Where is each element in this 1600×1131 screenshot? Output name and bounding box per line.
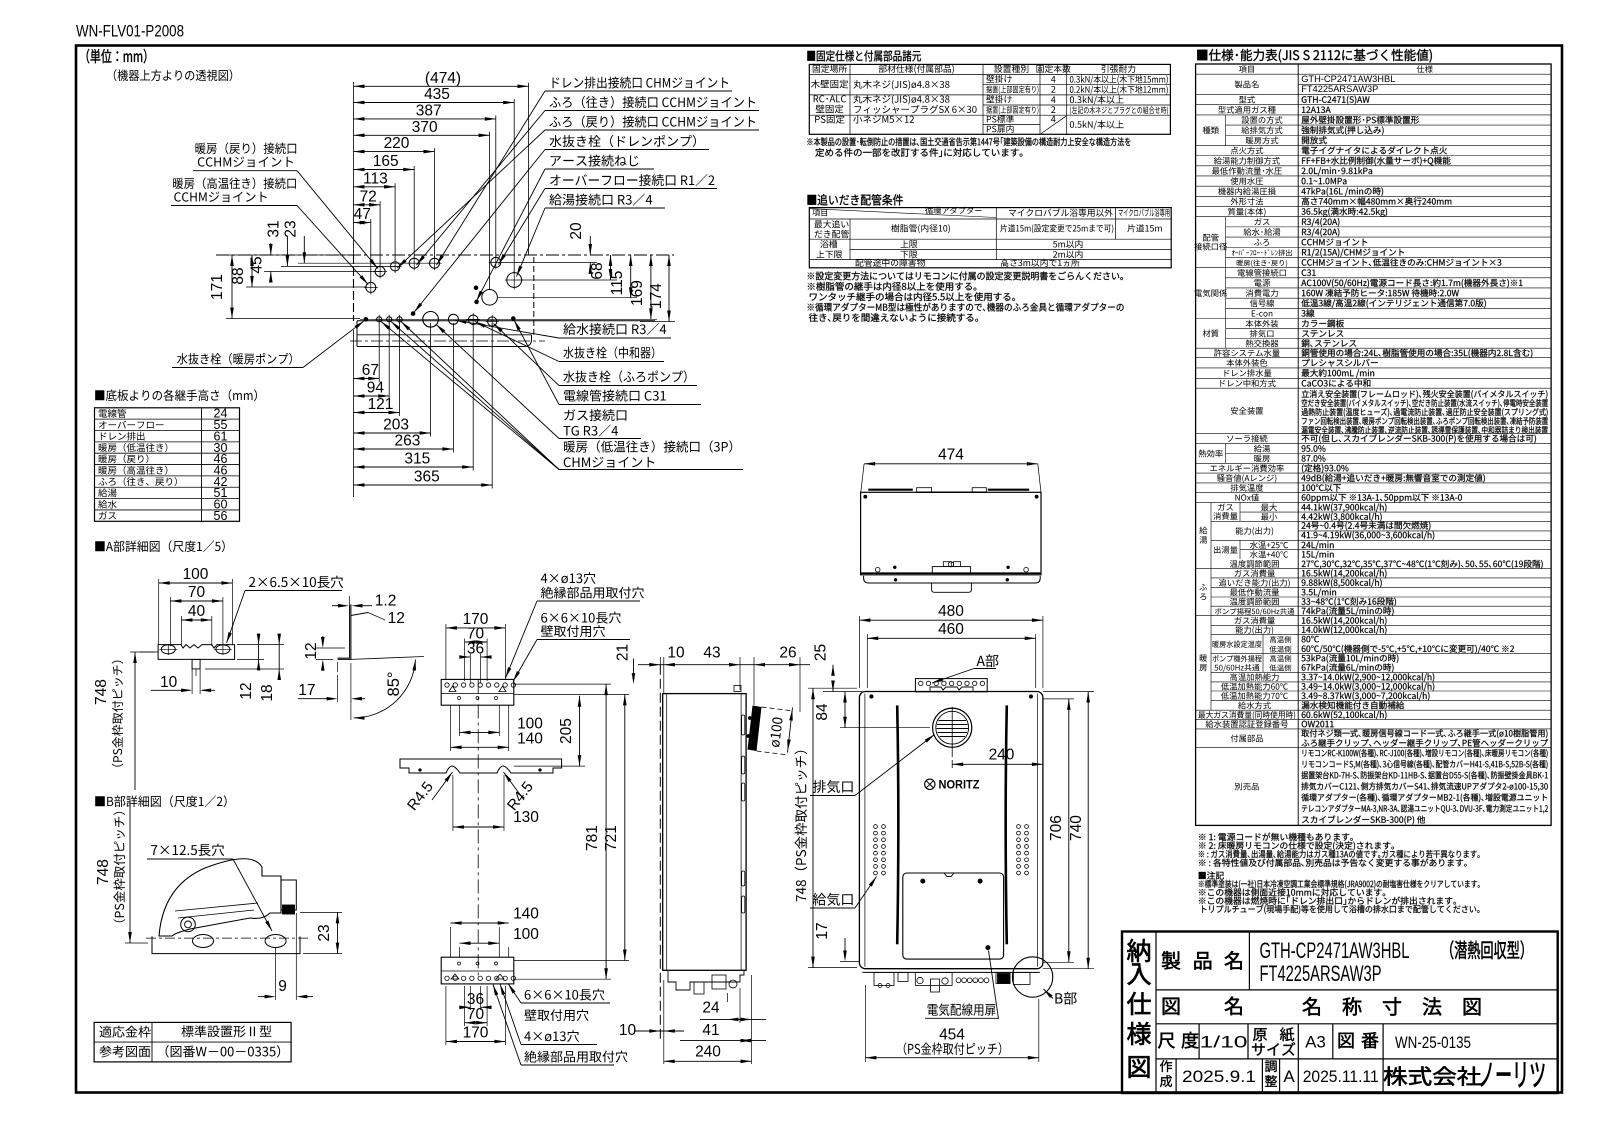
svg-text:68: 68 (589, 262, 606, 279)
svg-text:17: 17 (298, 682, 315, 699)
svg-text:94: 94 (367, 380, 385, 397)
svg-text:781: 781 (584, 825, 601, 851)
svg-text:41: 41 (702, 1022, 719, 1039)
svg-text:10: 10 (667, 645, 685, 662)
svg-text:454: 454 (939, 1026, 965, 1043)
svg-text:GTH-CP2471AW3HBL: GTH-CP2471AW3HBL (1260, 938, 1410, 963)
title block (1122, 932, 1558, 1094)
svg-text:67: 67 (362, 362, 379, 379)
svg-text:205: 205 (558, 718, 575, 744)
svg-text:370: 370 (412, 119, 438, 136)
svg-text:100: 100 (513, 926, 539, 943)
svg-text:21: 21 (615, 644, 632, 661)
svg-text:174: 174 (648, 283, 665, 309)
svg-text:20: 20 (568, 222, 585, 240)
svg-text:WN-FLV01-P2008: WN-FLV01-P2008 (76, 23, 184, 41)
unit front view (859, 692, 1043, 969)
svg-text:NORITZ: NORITZ (939, 780, 980, 792)
svg-text:85°: 85° (385, 672, 403, 697)
svg-text:474: 474 (938, 447, 964, 464)
top perspective view (unit from above) (354, 85, 529, 87)
svg-text:706: 706 (1048, 815, 1065, 841)
svg-text:748: 748 (95, 859, 112, 885)
svg-text:23: 23 (316, 924, 333, 941)
fixing spec table (807, 50, 921, 61)
svg-text:70: 70 (467, 1006, 485, 1023)
B-part detail drawing (95, 795, 226, 807)
svg-text:26: 26 (779, 645, 796, 662)
svg-text:17: 17 (814, 922, 831, 939)
svg-text:130: 130 (513, 809, 539, 826)
svg-text:2025.9.1: 2025.9.1 (1182, 1068, 1256, 1086)
svg-text:A3: A3 (1305, 1033, 1326, 1052)
svg-text:25: 25 (813, 644, 830, 661)
svg-text:40: 40 (188, 603, 206, 620)
connection holes (375, 267, 385, 277)
svg-text:43: 43 (703, 645, 720, 662)
joint height table (95, 389, 257, 401)
svg-text:113: 113 (363, 170, 388, 187)
wall bracket mounting diagram (460, 731, 500, 733)
svg-text:47: 47 (354, 206, 371, 223)
svg-text:169: 169 (629, 280, 646, 306)
svg-text:100: 100 (183, 566, 209, 583)
svg-text:36: 36 (467, 641, 484, 658)
svg-text:170: 170 (463, 1025, 489, 1042)
svg-text:435: 435 (424, 86, 450, 103)
svg-text:140: 140 (513, 905, 539, 922)
svg-text:GTH-CP2471AW3HBL: GTH-CP2471AW3HBL (1301, 74, 1395, 84)
svg-text:88: 88 (230, 267, 247, 284)
svg-text:24: 24 (702, 1000, 720, 1017)
svg-text:220: 220 (384, 135, 410, 152)
svg-text:18: 18 (259, 684, 276, 701)
svg-text:140: 140 (517, 731, 543, 748)
svg-text:460: 460 (938, 621, 964, 638)
svg-text:FT4225ARSAW3P: FT4225ARSAW3P (1301, 84, 1378, 94)
svg-text:2025.11.11: 2025.11.11 (1303, 1068, 1379, 1086)
svg-text:480: 480 (938, 603, 964, 620)
svg-text:WN-25-0135: WN-25-0135 (1395, 1034, 1471, 1052)
unit top view (864, 463, 1038, 465)
svg-text:9: 9 (278, 978, 287, 995)
svg-text:315: 315 (404, 451, 430, 468)
svg-text:12: 12 (238, 682, 255, 699)
svg-text:56: 56 (214, 509, 228, 523)
svg-text:1/10: 1/10 (1200, 1033, 1248, 1052)
svg-text:165: 165 (373, 153, 399, 170)
svg-text:1.2: 1.2 (375, 593, 397, 610)
svg-text:45: 45 (249, 256, 266, 273)
svg-text:10: 10 (160, 674, 178, 691)
svg-text:84: 84 (814, 703, 831, 721)
svg-text:171: 171 (209, 274, 226, 300)
svg-text:A: A (1283, 1067, 1295, 1086)
svg-text:240: 240 (989, 747, 1015, 764)
A-part detail drawing (95, 540, 225, 552)
svg-text:31: 31 (266, 220, 283, 237)
svg-text:203: 203 (383, 417, 409, 434)
svg-text:263: 263 (395, 433, 421, 450)
svg-text:387: 387 (416, 102, 442, 119)
svg-text:70: 70 (188, 584, 206, 601)
specification table (1197, 49, 1432, 63)
svg-text:240: 240 (695, 1044, 721, 1061)
svg-text:748: 748 (93, 679, 110, 705)
svg-text:72: 72 (360, 188, 377, 205)
svg-text:721: 721 (603, 825, 620, 851)
svg-text:10: 10 (619, 1022, 637, 1039)
svg-text:12: 12 (303, 642, 320, 659)
reheating piping table (807, 194, 902, 205)
svg-text:740: 740 (1068, 815, 1085, 841)
svg-text:115: 115 (609, 271, 626, 296)
svg-text:23: 23 (283, 220, 300, 237)
svg-text:(474): (474) (425, 70, 461, 87)
svg-text:365: 365 (414, 469, 440, 486)
svg-text:12: 12 (388, 610, 405, 627)
unit side view (663, 694, 746, 971)
svg-text:FT4225ARSAW3P: FT4225ARSAW3P (1260, 961, 1382, 986)
